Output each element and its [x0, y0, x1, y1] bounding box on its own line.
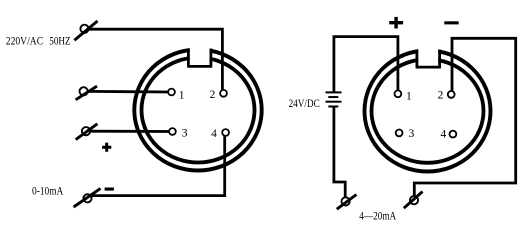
- wire: terminal T4 to pin 4 (bottom L-wire): [92, 133, 225, 196]
- terminal T5 (4-20mA +): [337, 195, 357, 210]
- svg-text:1: 1: [179, 90, 185, 102]
- minus sign (right, supply -): [444, 21, 458, 24]
- svg-text:1: 1: [406, 91, 412, 103]
- svg-text:4—20mA: 4—20mA: [359, 209, 396, 223]
- J2 pin 4: [450, 131, 457, 138]
- plus sign (left, output +): [102, 143, 111, 152]
- wire: battery + to pin 1: [334, 37, 398, 94]
- J1 pin 2: [220, 90, 227, 97]
- J1 pin 3: [169, 128, 176, 135]
- connector J2 body (double circle with keyway notch): [365, 43, 491, 172]
- connector J1 body (double circle with keyway notch): [134, 42, 261, 171]
- terminal T2 (AC neutral): [76, 86, 97, 100]
- svg-text:4: 4: [211, 128, 217, 140]
- J2 pin 2: [448, 91, 455, 98]
- terminal T4 (output -): [74, 188, 101, 207]
- svg-text:220V/AC: 220V/AC: [6, 34, 43, 48]
- svg-text:3: 3: [182, 128, 188, 140]
- plus sign (right, supply +): [389, 17, 403, 29]
- svg-text:0-10mA: 0-10mA: [32, 184, 64, 198]
- J1 pin 1: [168, 89, 175, 96]
- wire: terminal T2 to pin 1: [88, 90, 172, 93]
- svg-text:24V/DC: 24V/DC: [289, 96, 320, 110]
- terminal T6 (4-20mA -): [404, 192, 423, 209]
- svg-text:4: 4: [441, 129, 447, 141]
- wire: terminal T1 to pin 2 (top L-wire): [89, 29, 223, 93]
- wire: battery - down to terminal T5: [334, 107, 345, 201]
- battery B1 (24V): [326, 92, 342, 106]
- J2 pin 1: [395, 90, 402, 97]
- J1 pin 4: [222, 129, 229, 136]
- wire: pin 2 loop to terminal T6: [414, 38, 515, 200]
- svg-text:50HZ: 50HZ: [49, 34, 70, 48]
- J2 pin 3: [396, 130, 403, 137]
- terminal T1 (AC line): [74, 21, 97, 40]
- svg-text:2: 2: [438, 90, 444, 102]
- svg-text:3: 3: [409, 128, 415, 140]
- minus sign (left, output -): [105, 188, 114, 191]
- svg-text:2: 2: [210, 89, 216, 101]
- wire: terminal T3 to pin 3: [91, 130, 173, 133]
- terminal T3 (output +): [76, 124, 98, 140]
